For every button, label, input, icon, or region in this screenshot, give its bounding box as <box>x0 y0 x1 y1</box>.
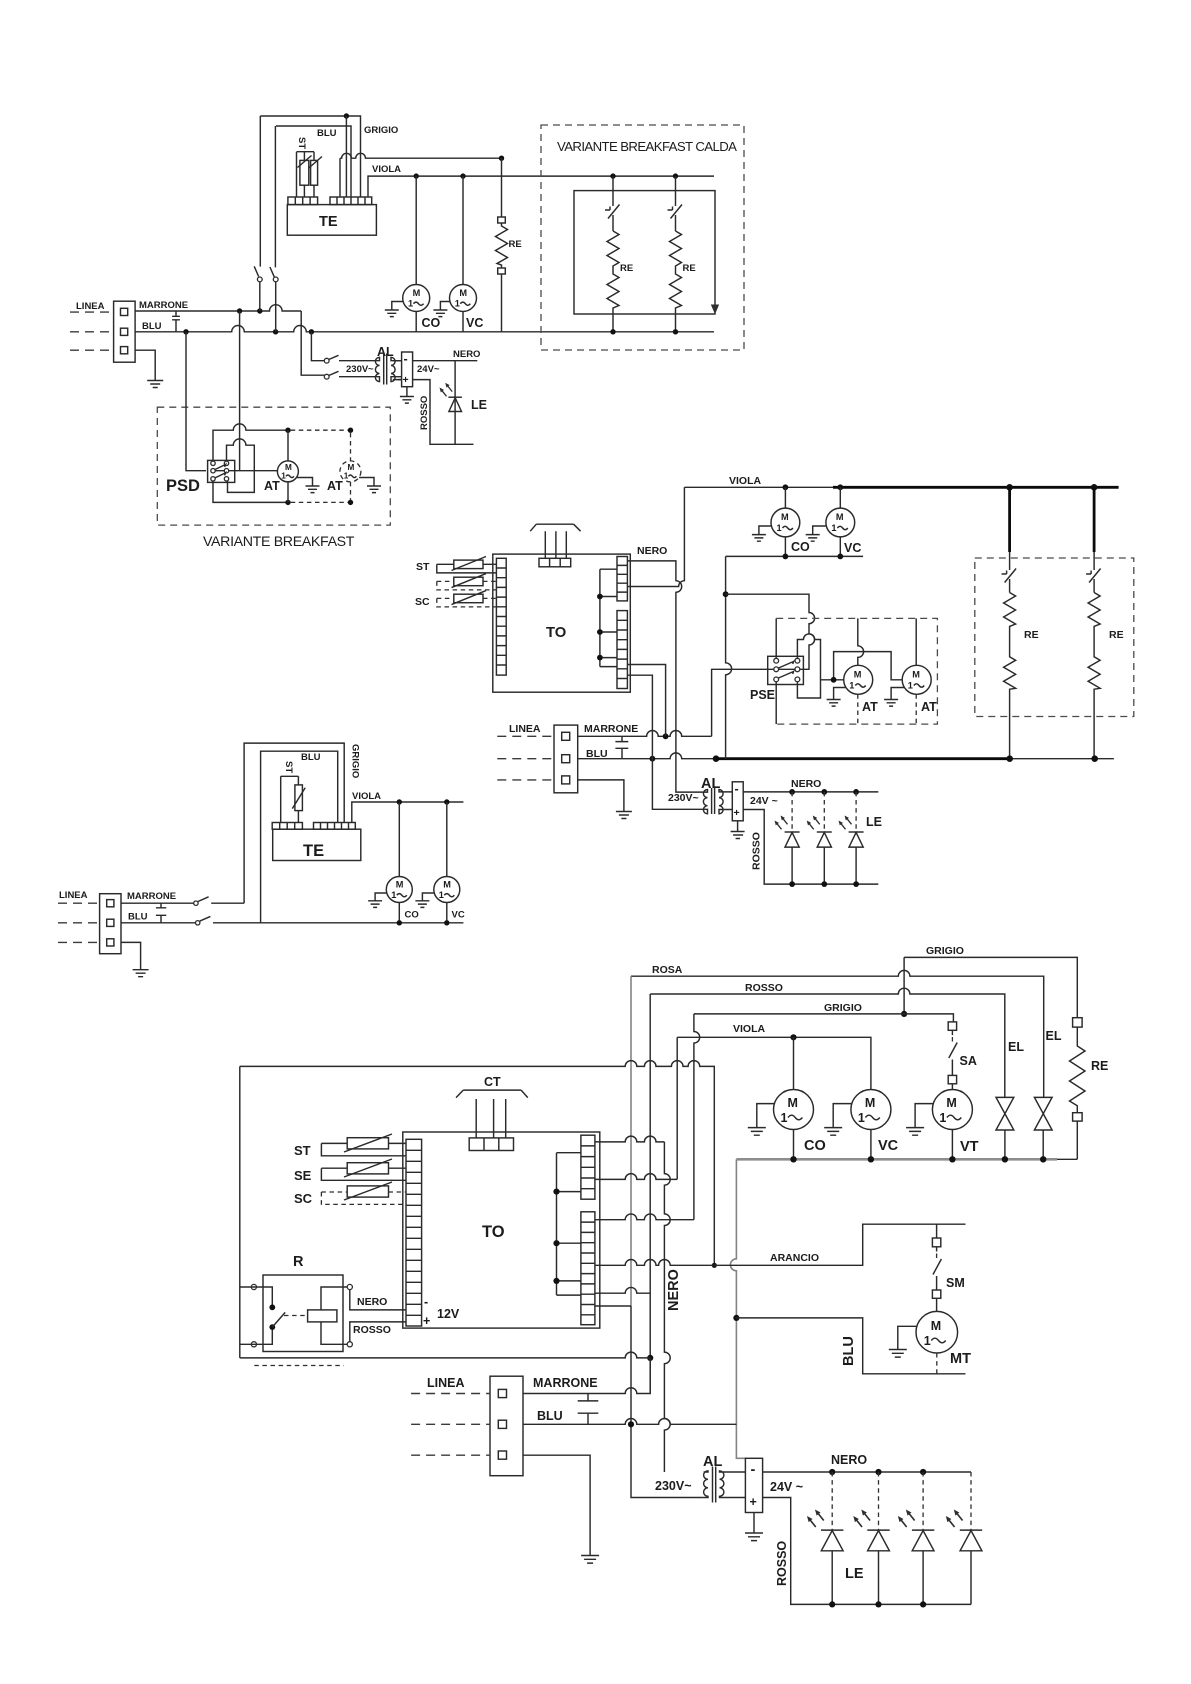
svg-text:VC: VC <box>466 316 483 330</box>
ground at AT2 <box>359 478 381 493</box>
svg-text:VIOLA: VIOLA <box>733 1023 766 1035</box>
svg-text:SA: SA <box>960 1054 977 1068</box>
svg-text:VARIANTE BREAKFAST CALDA: VARIANTE BREAKFAST CALDA <box>557 139 737 154</box>
svg-text:1: 1 <box>408 299 413 309</box>
motor AT1 <box>277 461 298 482</box>
svg-text:M: M <box>836 512 844 522</box>
LED LE3c <box>922 1472 924 1530</box>
svg-text:ST: ST <box>294 1143 311 1158</box>
valve EL1 <box>996 1097 1014 1130</box>
pressure switch PSD <box>208 460 235 482</box>
node ARANCIO junction <box>712 1263 717 1268</box>
wire ROSSO 24V return <box>413 380 474 445</box>
ground at VC1b <box>415 893 434 907</box>
node LED2a bottom <box>789 881 795 887</box>
svg-text:NERO: NERO <box>791 778 821 790</box>
resistor RE-b (two sections) <box>670 231 682 332</box>
node BLU RE2b <box>1091 755 1098 762</box>
svg-text:230V: 230V <box>346 364 369 375</box>
svg-text:12V: 12V <box>437 1307 460 1321</box>
svg-text:LE: LE <box>866 815 882 829</box>
svg-text:LINEA: LINEA <box>76 301 105 312</box>
wire mains dashed stubs <box>70 312 114 350</box>
transformer AL2 primary coil <box>703 790 707 814</box>
terminal strip TO3 top <box>469 1138 513 1151</box>
LED LE2c <box>855 792 857 832</box>
resistor RE1 <box>501 158 503 217</box>
wire BLU3 main <box>523 1419 736 1425</box>
svg-text:EL: EL <box>1008 1040 1024 1054</box>
wire mains dashed stubs <box>497 736 554 780</box>
svg-text:BLU: BLU <box>301 752 321 763</box>
resistor RE2a (two sections) <box>1004 593 1016 759</box>
wire CO3 feed <box>793 1037 795 1089</box>
svg-text:MARRONE: MARRONE <box>139 300 188 311</box>
wire PSD holding loop <box>227 439 255 492</box>
svg-text:EL: EL <box>1046 1029 1062 1043</box>
wire NERO 24V <box>413 360 478 362</box>
node BLU3-ROSA <box>628 1421 634 1427</box>
ground at CO2 <box>752 526 771 541</box>
svg-text:CO: CO <box>405 910 419 921</box>
wire MARRONE bus <box>578 730 712 736</box>
wire ROSA vertical (grey) <box>630 976 632 1306</box>
relay R coil <box>308 1310 337 1322</box>
dashed box VARIANTE BREAKFAST (PSD) <box>157 407 390 525</box>
motor CO <box>403 285 430 312</box>
wire BLU thick bus <box>716 757 1010 760</box>
svg-text:ST: ST <box>296 137 307 149</box>
ground at AL2 block <box>731 821 745 839</box>
wire BLU thin tail <box>1010 758 1114 760</box>
svg-text:+: + <box>734 807 740 819</box>
wire GRIGIO1b loop <box>244 743 344 903</box>
ground at AT3 <box>827 688 846 707</box>
node VIOLA RE2a <box>1006 484 1013 491</box>
sensor SE (dashed leads) <box>454 577 483 586</box>
wire NERO TO-to-transformer <box>627 561 703 792</box>
sensor ST (two NTC) <box>300 160 309 185</box>
svg-text:VARIANTE BREAKFAST: VARIANTE BREAKFAST <box>203 534 355 550</box>
node AT top a <box>285 428 290 433</box>
motor MT <box>916 1311 958 1353</box>
svg-text:LE: LE <box>471 398 487 412</box>
node VIOLA RE-a <box>610 173 615 178</box>
motor CO1b <box>386 877 412 903</box>
svg-text:24V ~: 24V ~ <box>770 1480 803 1494</box>
wire PSE top-left up <box>775 618 777 658</box>
wire VIOLA1b <box>352 802 464 823</box>
TO3 internal bus <box>557 1153 581 1295</box>
switch SA chain <box>948 1022 956 1030</box>
svg-text:1: 1 <box>781 1111 788 1125</box>
svg-text:1: 1 <box>858 1111 865 1125</box>
svg-text:M: M <box>443 880 451 890</box>
wire MARRONE to PSE <box>712 669 775 736</box>
connector CN2 (LINEA) <box>554 725 578 793</box>
node TO int b <box>597 629 603 635</box>
terminal strip TO top <box>539 558 571 567</box>
svg-text:M: M <box>285 463 292 472</box>
dashed R bottom <box>254 1365 343 1367</box>
wire VIOLA TO riser <box>627 487 684 586</box>
svg-text:M: M <box>946 1096 956 1110</box>
svg-text:1: 1 <box>831 523 836 533</box>
svg-text:1: 1 <box>391 890 396 900</box>
node BLU RE-b <box>673 329 678 334</box>
thermal cutout TS-a <box>605 176 620 231</box>
sensor SC (dashed leads) <box>454 594 483 603</box>
node LED2c bottom <box>853 881 859 887</box>
ground earth connector3 <box>523 1455 599 1563</box>
svg-text:TO: TO <box>546 625 566 641</box>
sensor ST3 <box>347 1138 388 1149</box>
inner box RE group <box>574 191 715 314</box>
arrow inner box <box>712 300 719 313</box>
svg-text:AL: AL <box>701 776 720 792</box>
motor VC3 <box>851 1090 891 1130</box>
svg-text:1: 1 <box>777 523 782 533</box>
ground at CO1b <box>368 893 387 907</box>
svg-text:1: 1 <box>939 1111 946 1125</box>
node top x346 <box>344 113 349 118</box>
pressure switch PSE <box>768 656 804 684</box>
wire MARRONE drop to switch S2 <box>301 311 324 375</box>
svg-text:RE: RE <box>509 239 522 250</box>
dashed box VARIANTE BREAKFAST CALDA <box>541 125 744 350</box>
transformer AL output block <box>402 352 413 387</box>
svg-text:M: M <box>459 288 467 298</box>
svg-text:VC: VC <box>452 910 465 921</box>
switch S1b pole b <box>121 916 463 922</box>
node VIOLA VC <box>460 173 465 178</box>
motor AT4 <box>902 665 931 694</box>
svg-text:M: M <box>781 512 789 522</box>
svg-text:SC: SC <box>294 1191 313 1206</box>
wire PSD bottom to AT bottom bus <box>213 481 288 502</box>
transformer AL3 secondary coil <box>720 1471 746 1498</box>
wire NERO3 24V bus <box>763 1471 971 1473</box>
wire VIOLA bus thick <box>833 486 1119 489</box>
LED LE1 <box>454 361 456 445</box>
svg-text:M: M <box>396 880 404 890</box>
svg-text:AT: AT <box>862 700 878 714</box>
node bus VC3 <box>868 1156 874 1162</box>
terminal strip TO left <box>496 558 506 675</box>
LED LE3d <box>970 1472 972 1530</box>
svg-text:M: M <box>865 1096 875 1110</box>
svg-text:VIOLA: VIOLA <box>352 791 381 802</box>
svg-text:230V~: 230V~ <box>668 792 699 804</box>
node VIOLA VC2 <box>837 484 843 490</box>
wire GRIGIO top <box>904 957 1077 1017</box>
TO board box <box>493 554 631 692</box>
svg-text:SC: SC <box>415 596 430 608</box>
svg-text:BLU: BLU <box>142 321 162 332</box>
ground earth connector <box>578 780 632 819</box>
node VIOLA RE-b <box>673 173 678 178</box>
node TO3 int a <box>553 1189 559 1195</box>
wire PSD top contact to AT bus <box>213 424 288 461</box>
ground at AL3 block <box>745 1513 763 1541</box>
wire from node down to TE <box>345 116 347 197</box>
terminal strip TO right lower <box>617 611 627 689</box>
TO3 board box <box>403 1132 600 1328</box>
resistor RE-a (two sections) <box>607 231 619 332</box>
wire TO to BLU and transformer <box>627 675 703 809</box>
svg-text:AT: AT <box>327 479 343 493</box>
svg-text:PSD: PSD <box>166 477 200 495</box>
motor VC1b <box>434 877 460 903</box>
TO internal bus <box>600 569 617 666</box>
svg-text:BLU: BLU <box>128 912 148 923</box>
node LED3a bottom <box>829 1601 835 1607</box>
node LED2b <box>821 789 827 795</box>
node VIOLA CO2 <box>783 484 789 490</box>
svg-text:~: ~ <box>434 364 440 375</box>
wire top loop to TE <box>260 116 360 197</box>
wire VIOLA3 <box>677 1037 871 1179</box>
svg-text:CO: CO <box>791 540 810 554</box>
wire motor bottom bus <box>726 555 864 557</box>
node VIOLA CO <box>414 173 419 178</box>
ground at CO3 <box>748 1104 775 1136</box>
svg-text:M: M <box>931 1319 941 1333</box>
svg-text:R: R <box>293 1254 304 1270</box>
svg-text:MARRONE: MARRONE <box>533 1376 598 1390</box>
capacitor C3 <box>578 1394 599 1425</box>
ground at VC3 <box>824 1104 852 1136</box>
wire VIOLA bus thin <box>684 486 833 488</box>
node AT top b <box>348 428 353 433</box>
svg-text:ROSSO: ROSSO <box>745 982 783 994</box>
wire MARRONE3 <box>523 1358 650 1394</box>
svg-text:LE: LE <box>845 1566 864 1582</box>
svg-text:RE: RE <box>1024 629 1039 641</box>
wire RE2b feed thick <box>1093 487 1096 552</box>
svg-text:M: M <box>413 288 421 298</box>
wire row1 NERO <box>595 1136 664 1142</box>
svg-text:M: M <box>854 670 862 680</box>
svg-text:1: 1 <box>849 681 854 691</box>
wire motor bottom bus (grey) <box>736 1158 1057 1161</box>
wire mains dashed stubs <box>58 903 100 942</box>
LED LE3b <box>878 1472 880 1530</box>
wire VIOLA <box>368 176 714 197</box>
svg-text:+: + <box>423 1314 430 1328</box>
svg-text:VC: VC <box>878 1138 899 1154</box>
svg-text:~: ~ <box>368 364 374 375</box>
svg-text:TE: TE <box>303 842 324 860</box>
ground earth connector1b <box>121 942 149 976</box>
switch S1b pole a <box>121 897 244 903</box>
wire BLU bus <box>578 753 716 759</box>
svg-text:-: - <box>404 352 408 366</box>
wire rowA <box>595 1287 650 1293</box>
transformer AL secondary coil <box>391 357 402 381</box>
LED LE2a <box>791 792 793 832</box>
svg-text:1: 1 <box>908 681 913 691</box>
svg-text:TE: TE <box>319 214 338 230</box>
wire TO to MARRONE node <box>627 665 665 737</box>
node BLU-MT <box>733 1315 739 1321</box>
svg-text:ROSA: ROSA <box>652 964 683 976</box>
wire row3 GRIGIO <box>595 1214 694 1220</box>
svg-text:1: 1 <box>281 472 286 481</box>
svg-text:+: + <box>403 374 409 386</box>
svg-text:SE: SE <box>294 1168 312 1183</box>
wire rowB <box>595 1305 631 1307</box>
sensor ST <box>454 560 483 569</box>
ground at AT4 <box>884 688 904 707</box>
svg-text:VC: VC <box>844 541 861 555</box>
dashed box AT group <box>776 618 937 724</box>
terminal strip TE left <box>288 197 318 205</box>
wire NERO 24V bus <box>743 791 878 793</box>
node BLU RE-a <box>610 329 615 334</box>
wire control bus left <box>240 1061 715 1266</box>
svg-text:+: + <box>750 1495 757 1509</box>
CT pickup bracket <box>530 524 580 558</box>
svg-text:M: M <box>788 1096 798 1110</box>
svg-text:24V ~: 24V ~ <box>750 795 778 807</box>
ground at VT3 <box>906 1104 934 1136</box>
motor CO3 <box>774 1090 814 1130</box>
terminal strip TE1b left <box>272 823 302 830</box>
svg-text:BLU: BLU <box>537 1409 563 1423</box>
wire MARRONE bus <box>135 305 301 311</box>
node VIOLA RE2b <box>1091 484 1098 491</box>
wire PSE bottom drop <box>775 682 777 724</box>
ground at CO <box>385 302 403 317</box>
node LED3c bottom <box>920 1601 926 1607</box>
thermal cutout TS2b <box>1086 552 1101 593</box>
node bus VC2 <box>837 554 843 560</box>
motor CO2 <box>771 508 800 537</box>
node VIOLA3 CO <box>790 1034 796 1040</box>
transformer AL3 output block <box>745 1458 762 1512</box>
ground at MT <box>889 1326 918 1357</box>
relay R terminals <box>251 1284 256 1289</box>
wire PSE holding loop <box>797 634 820 698</box>
LED LE3a <box>831 1472 833 1530</box>
wire BLU1b to TE <box>261 751 338 923</box>
wire NERO 12V <box>350 1290 406 1310</box>
wire BLU to PSD <box>186 332 206 471</box>
svg-text:ST: ST <box>416 561 430 573</box>
wire RE2a feed thick <box>1008 487 1011 552</box>
wire mains dashed stubs <box>411 1394 490 1456</box>
node TO3 int b <box>553 1240 559 1246</box>
node BLU1b VC <box>444 920 449 925</box>
sensor SE3 <box>347 1163 388 1174</box>
motor VC <box>450 285 477 312</box>
svg-text:LINEA: LINEA <box>509 723 541 735</box>
svg-text:-: - <box>424 1295 428 1309</box>
wire row2 VIOLA <box>595 1174 677 1180</box>
thermostat TE1b box <box>273 829 361 860</box>
node bus VT3 <box>949 1156 955 1162</box>
svg-text:-: - <box>735 782 739 796</box>
svg-text:RE: RE <box>620 263 633 274</box>
sensor ST1b <box>281 776 299 822</box>
svg-text:ST: ST <box>283 761 294 773</box>
switch S1 pole a <box>254 116 260 311</box>
node bus CO2 <box>783 554 789 560</box>
motor VC2 <box>826 508 855 537</box>
svg-text:-: - <box>751 1462 756 1478</box>
dashed box RE2 group <box>975 558 1134 717</box>
transformer AL primary coil <box>375 357 379 381</box>
relay R box <box>263 1275 343 1352</box>
svg-text:MARRONE: MARRONE <box>584 723 638 735</box>
svg-text:GRIGIO: GRIGIO <box>350 744 361 778</box>
node LED2b bottom <box>821 881 827 887</box>
transformer AL2 secondary coil <box>719 790 732 814</box>
wire ROSSO vertical <box>649 994 651 1393</box>
svg-text:RE: RE <box>1109 629 1124 641</box>
motor AT3 <box>844 665 873 694</box>
CT pickup bracket <box>456 1090 528 1138</box>
svg-text:BLU: BLU <box>317 128 337 139</box>
node LED3b <box>875 1469 881 1475</box>
svg-text:VIOLA: VIOLA <box>729 475 762 487</box>
capacitor C1 <box>172 311 180 332</box>
switch SM chain <box>936 1224 938 1238</box>
wire GRIGIO mid <box>694 1014 954 1022</box>
node GRIGIO x501 <box>499 156 504 161</box>
wire PSE top feed <box>726 594 815 669</box>
svg-text:CT: CT <box>484 1075 501 1089</box>
wire AT2 feed with node <box>821 652 903 680</box>
node LED2a <box>789 789 795 795</box>
thermostat TE box <box>287 205 376 236</box>
node on MARRONE x260 <box>257 308 262 313</box>
node VIOLA1b VC <box>444 799 449 804</box>
wire BLU drop to switch S2 <box>311 332 324 361</box>
ground earth connector <box>135 350 163 387</box>
node LED3a <box>829 1469 835 1475</box>
wire ROSSO 12V <box>350 1322 406 1342</box>
wire BLU bus <box>135 325 714 331</box>
node bus CO3 <box>790 1156 796 1162</box>
connector CN1b (LINEA) <box>100 894 121 954</box>
node VIOLA1b CO <box>397 799 402 804</box>
svg-text:LINEA: LINEA <box>427 1376 465 1390</box>
LED LE2b <box>823 792 825 832</box>
node TO int c <box>597 655 603 661</box>
svg-text:ROSSO: ROSSO <box>775 1541 789 1586</box>
switch S2 pole b <box>324 374 329 379</box>
wire GRIGIO2 vertical <box>694 1014 700 1220</box>
svg-text:GRIGIO: GRIGIO <box>364 125 398 136</box>
svg-text:1: 1 <box>924 1334 931 1348</box>
relay R contact <box>240 1287 272 1344</box>
valve EL2 <box>1034 1097 1052 1130</box>
node BLU1b CO <box>397 920 402 925</box>
wire ROSSO3 24V return <box>763 1498 971 1605</box>
terminal strip TO3 right upper <box>581 1135 595 1199</box>
node on MARRONE x240 <box>237 308 242 313</box>
svg-text:AT: AT <box>921 700 937 714</box>
wire dashed AT bottom <box>291 501 351 503</box>
capacitor C2 <box>615 736 628 758</box>
node BLU RE2a <box>1006 755 1013 762</box>
node LED3b bottom <box>875 1601 881 1607</box>
connector CN3 (LINEA) <box>490 1376 523 1476</box>
wire ROSA horizontal <box>631 970 1044 1097</box>
transformer AL2 output block <box>732 782 743 821</box>
